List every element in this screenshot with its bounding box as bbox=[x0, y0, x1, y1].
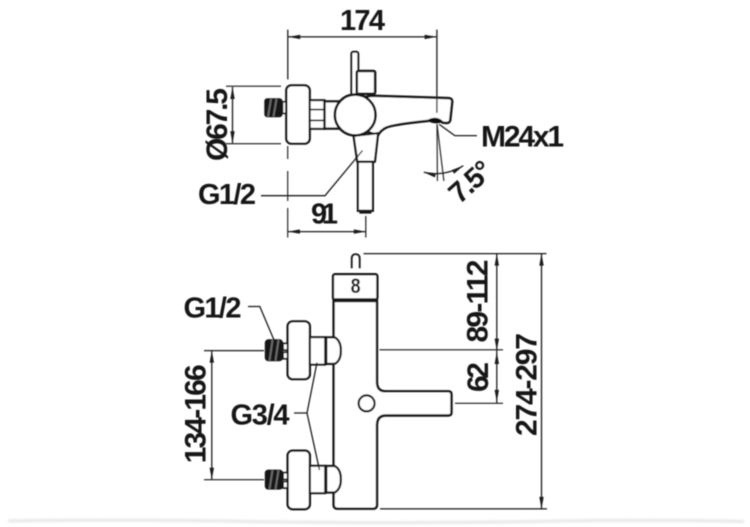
aerator lens (dark) bbox=[428, 119, 443, 124]
shower outlet bottom cap bbox=[359, 210, 371, 214]
union nut segment 2 (side view) bbox=[325, 101, 341, 128]
cap thick bottom bbox=[333, 298, 378, 301]
bottom port: connector bbox=[310, 466, 325, 493]
bottom port: collar tabs bbox=[283, 473, 288, 480]
body with arm (front view) bbox=[334, 301, 452, 509]
extension line left (wall plane) bbox=[287, 30, 289, 80]
top port: flange bbox=[288, 321, 310, 379]
lever grip block (side view) bbox=[357, 71, 375, 94]
faint scan artifact at bottom bbox=[8, 520, 744, 523]
extension line right mid (y 350) bbox=[380, 349, 504, 351]
svg-text:274-297: 274-297 bbox=[511, 333, 544, 436]
extension lines 134-166 bbox=[204, 350, 264, 352]
leader G1/2 front bbox=[248, 307, 274, 341]
svg-text:89-112: 89-112 bbox=[462, 260, 495, 343]
dashed wall centerline bbox=[287, 146, 289, 238]
dimension Ø67.5 line bbox=[232, 87, 234, 143]
svg-text:G1/2: G1/2 bbox=[198, 179, 256, 211]
svg-text:62: 62 bbox=[462, 362, 495, 392]
shower outlet cylinder (side view) bbox=[358, 162, 373, 211]
dimension 89-112 line bbox=[496, 254, 498, 351]
dimension 274-297 line bbox=[541, 254, 543, 509]
dimension 62 line bbox=[496, 351, 498, 404]
extension line bottom (y 509) bbox=[380, 508, 547, 510]
top port: union bump bbox=[326, 337, 341, 364]
cartridge body circle (side view) bbox=[335, 95, 376, 136]
extension line right of 91 bbox=[365, 216, 367, 238]
leader G3/4 (two branches) bbox=[294, 363, 320, 471]
top port: knurled nut bbox=[265, 339, 283, 361]
angle reference vertical line bbox=[436, 124, 438, 181]
top port: collar tabs bbox=[283, 343, 288, 350]
collar between nut and flange (side view) bbox=[283, 102, 288, 114]
svg-text:91: 91 bbox=[311, 199, 338, 231]
bottom port: knurled nut bbox=[265, 470, 283, 490]
shower outlet cone (side view) bbox=[354, 133, 379, 162]
spout (side view) bbox=[356, 96, 452, 136]
svg-text:M24x1: M24x1 bbox=[481, 120, 564, 153]
dimension 134-166 line bbox=[211, 351, 213, 480]
svg-text:G3/4: G3/4 bbox=[231, 400, 290, 432]
svg-text:174: 174 bbox=[340, 5, 385, 37]
leader G1/2 to shower cone bbox=[261, 151, 363, 196]
dimension 91 line bbox=[288, 231, 366, 233]
extension line right arm (y 403.3) bbox=[455, 402, 503, 404]
union segment with bands (side view) bbox=[310, 100, 325, 129]
top port: connector bbox=[310, 337, 325, 364]
dimension 174 line bbox=[288, 36, 436, 38]
leader M24x1 bbox=[439, 124, 477, 135]
angle arc with arrows bbox=[424, 166, 464, 174]
extension lines Ø67.5 bbox=[226, 85, 281, 87]
bottom port: union bump bbox=[326, 466, 341, 493]
screw circle on body bbox=[359, 395, 375, 411]
svg-text:134-166: 134-166 bbox=[180, 364, 213, 463]
angle 7.5 slanted line bbox=[437, 124, 444, 181]
knurled union nut (side view) bbox=[264, 98, 282, 117]
lever rod (side view) bbox=[351, 52, 358, 95]
wall flange / rosette (side view) bbox=[286, 85, 309, 143]
extension line top (y 253.6) bbox=[364, 253, 547, 255]
extension line right bbox=[436, 30, 438, 113]
lever tip U (front view) bbox=[352, 254, 360, 268]
bottom port: flange bbox=[288, 451, 310, 510]
svg-text:8: 8 bbox=[351, 275, 361, 298]
svg-text:G1/2: G1/2 bbox=[184, 293, 242, 325]
svg-text:Ø67.5: Ø67.5 bbox=[201, 88, 234, 161]
cap (front view) bbox=[333, 274, 377, 300]
